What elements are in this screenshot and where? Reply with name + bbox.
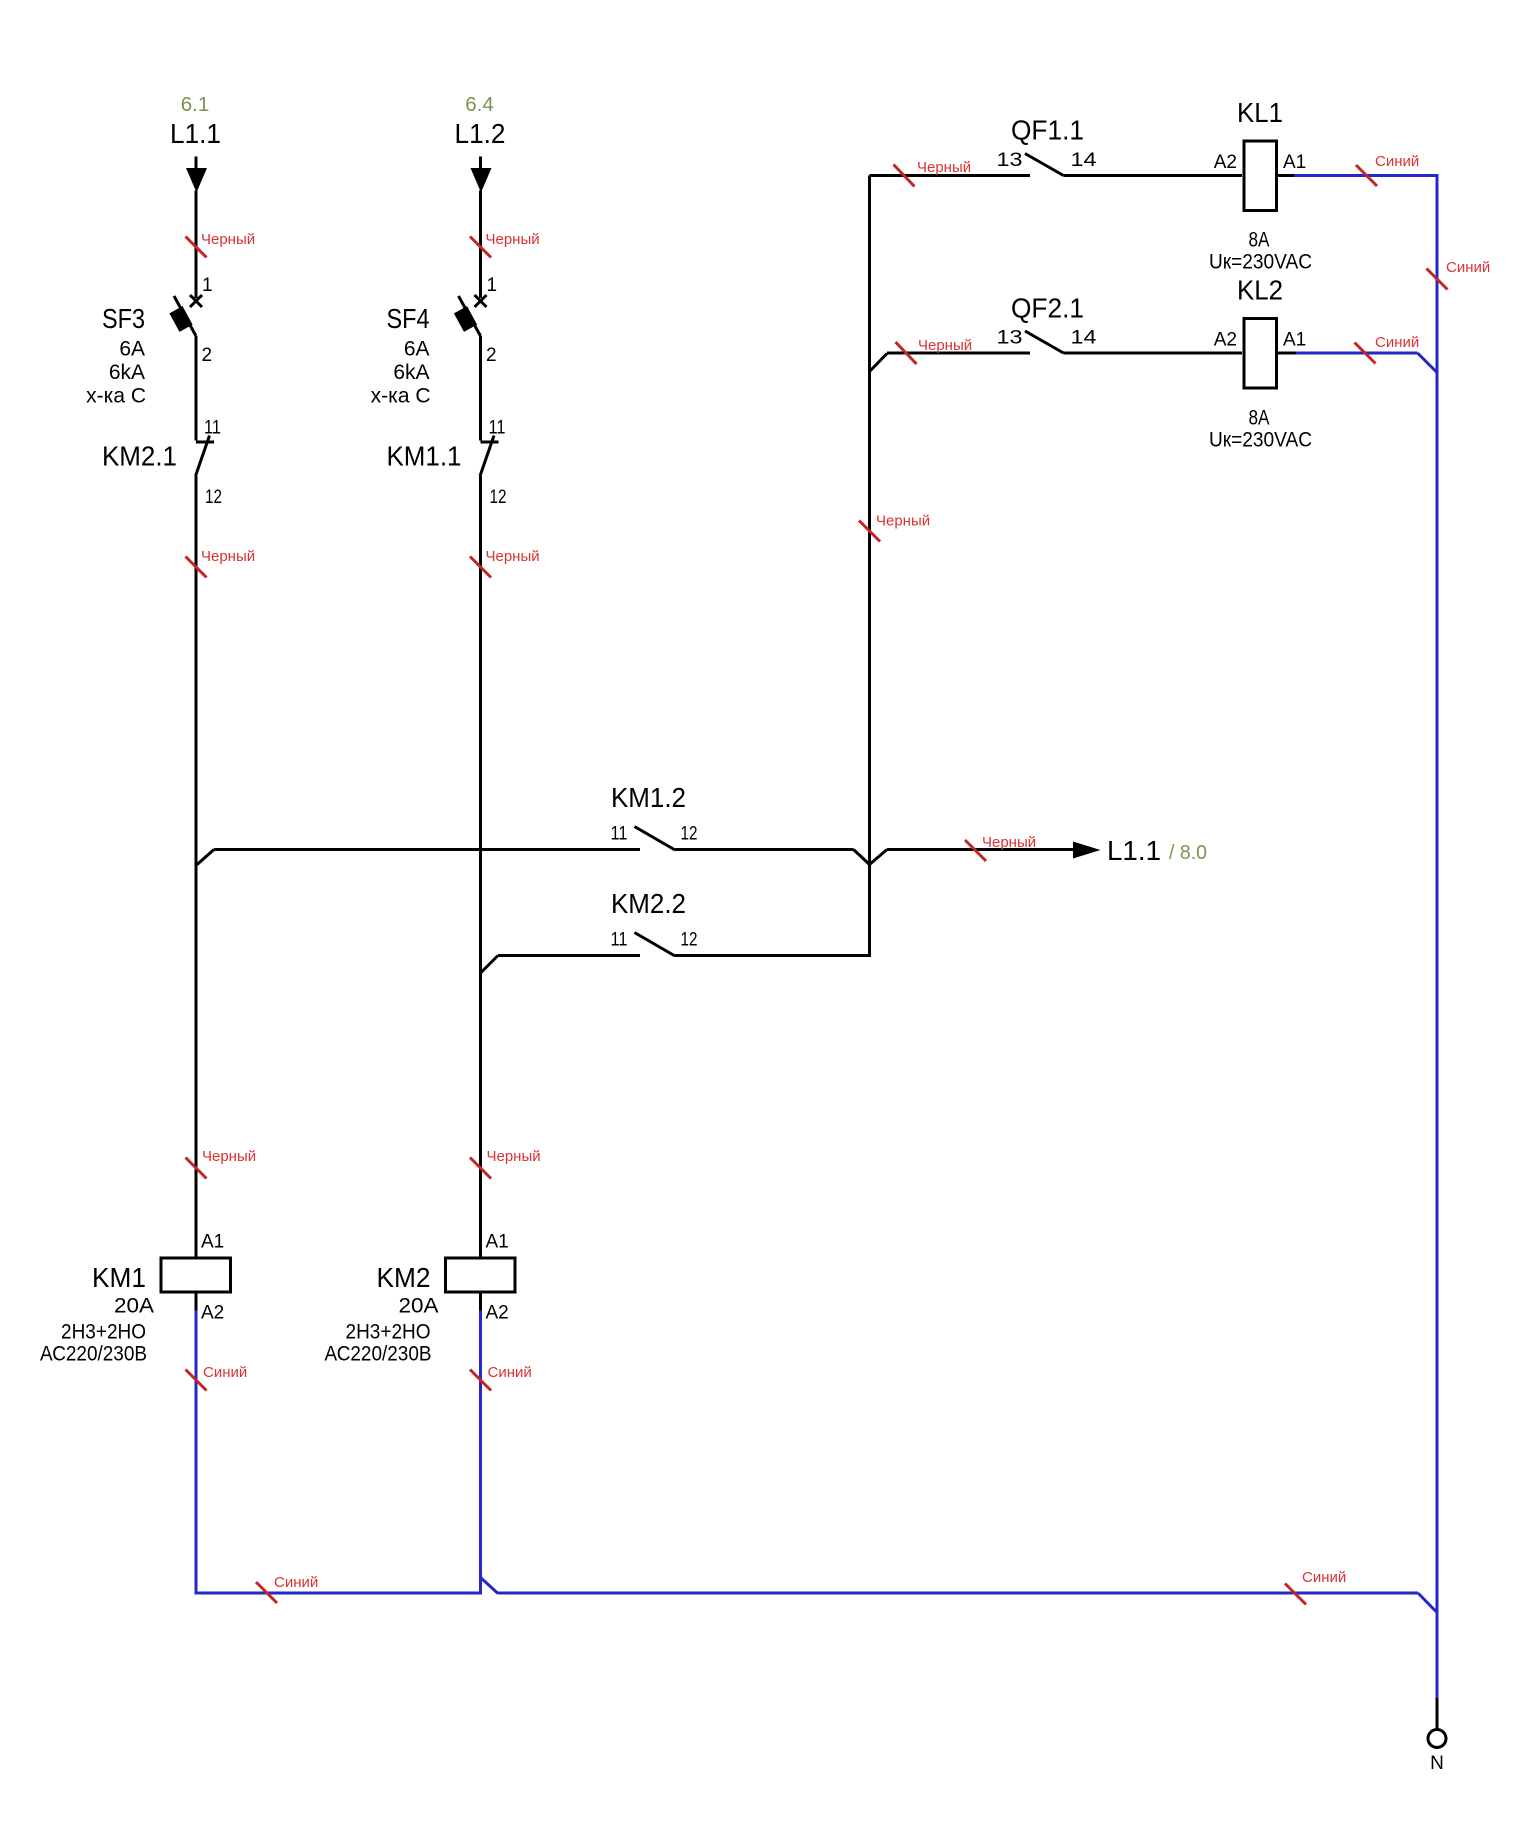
pin 1 of SF3 — [202, 275, 213, 296]
NO contact KM2.2 — [611, 888, 698, 956]
contactor coil KM2 — [325, 1258, 516, 1366]
svg-text:6A: 6A — [404, 338, 430, 361]
NO contact KM1.2 — [611, 782, 698, 850]
node L1.1 source arrow (ref 6.1) — [170, 94, 221, 193]
svg-text:11: 11 — [611, 824, 628, 845]
relay coil KL1 — [1209, 97, 1312, 274]
svg-text:Синий: Синий — [274, 1574, 318, 1591]
svg-text:L1.2: L1.2 — [455, 118, 506, 149]
svg-text:20A: 20A — [399, 1295, 439, 1318]
svg-text:12: 12 — [681, 930, 698, 951]
svg-text:2Н3+2НО: 2Н3+2НО — [346, 1321, 431, 1344]
svg-text:Черный: Черный — [487, 1148, 541, 1165]
pin A1 of KM1 — [201, 1232, 224, 1253]
wire QF2.1 to KL2 A2 — [1064, 352, 1243, 355]
wire color label Черный (QF branch vertical) — [859, 513, 930, 542]
pin A1 of KM2 — [486, 1232, 509, 1253]
svg-text:KL2: KL2 — [1237, 275, 1283, 306]
svg-text:KM2: KM2 — [377, 1262, 431, 1293]
wire QF1.1 to KL1 A2 — [1064, 174, 1243, 177]
svg-text:6kA: 6kA — [393, 361, 429, 384]
svg-text:KM1.1: KM1.1 — [387, 441, 462, 472]
svg-text:12: 12 — [490, 487, 507, 508]
svg-text:8A: 8A — [1249, 229, 1270, 252]
wire L1.1 down to SF3 pin 1 — [195, 191, 198, 299]
circuit breaker SF4 — [371, 295, 487, 408]
wire color label Черный (top of SF3 branch) — [186, 231, 256, 258]
svg-text:1: 1 — [487, 275, 498, 296]
svg-text:6.4: 6.4 — [465, 94, 494, 116]
NO contact QF2.1 — [997, 293, 1098, 354]
svg-text:2: 2 — [202, 345, 213, 366]
svg-text:20A: 20A — [114, 1295, 154, 1318]
NC contact KM2.1 — [102, 436, 214, 477]
wire color label Синий (N bus left) — [256, 1574, 318, 1603]
svg-text:Черный: Черный — [201, 231, 255, 248]
svg-text:SF3: SF3 — [102, 303, 145, 334]
wire (blue) N bus horizontal right — [498, 1592, 1418, 1595]
svg-text:A1: A1 — [201, 1232, 224, 1253]
wire KM2 coil A2 stub — [479, 1293, 482, 1311]
wire color label Синий (below KM1) — [186, 1364, 248, 1391]
svg-text:6A: 6A — [119, 338, 145, 361]
svg-text:KM1.2: KM1.2 — [611, 782, 686, 813]
svg-text:Черный: Черный — [486, 548, 540, 565]
svg-text:KM2.2: KM2.2 — [611, 888, 686, 919]
svg-text:1: 1 — [202, 275, 213, 296]
pin 1 of SF4 — [487, 275, 498, 296]
svg-text:2Н3+2НО: 2Н3+2НО — [61, 1321, 146, 1344]
wire SF3 pin 2 to KM2.1 pin 11 — [195, 336, 198, 441]
pin A2 of KL2 — [1214, 330, 1237, 351]
svg-text:A1: A1 — [1283, 330, 1306, 351]
svg-text:14: 14 — [1071, 328, 1098, 349]
svg-text:Черный: Черный — [486, 231, 540, 248]
wire color label Черный (above KM1 coil) — [186, 1148, 257, 1179]
wire color label Черный (middle of SF4 branch) — [470, 548, 540, 578]
wire KM1.2 row right segment — [675, 848, 854, 851]
wire color label Черный (middle of SF3 branch) — [186, 548, 256, 578]
svg-text:12: 12 — [205, 487, 222, 508]
wire (blue) KM2 A2 down to N bus — [479, 1311, 482, 1595]
svg-text:QF1.1: QF1.1 — [1011, 115, 1084, 146]
svg-text:АС220/230В: АС220/230В — [325, 1343, 432, 1366]
svg-text:11: 11 — [611, 930, 628, 951]
wire KM2.2 row up to junction node — [868, 865, 871, 958]
pin 2 of SF3 — [202, 345, 213, 366]
circuit breaker SF3 — [86, 295, 202, 408]
wire color label Синий (N bus right) — [1285, 1569, 1346, 1605]
svg-text:Черный: Черный — [918, 337, 972, 354]
wire color label Черный (QF1.1 row) — [894, 159, 972, 187]
junction jog into node (left) — [854, 850, 870, 865]
svg-text:A2: A2 — [1214, 152, 1237, 173]
wire color label Черный (above KM2 coil) — [470, 1148, 541, 1179]
relay coil KL2 — [1209, 275, 1312, 452]
svg-text:A2: A2 — [486, 1303, 509, 1324]
wire color label Черный (top of SF4 branch) — [470, 231, 540, 258]
wire QF branch vertical — [868, 176, 871, 865]
wire KM2.2 row right segment — [675, 954, 870, 957]
NO contact QF1.1 — [997, 115, 1098, 176]
svg-text:Синий: Синий — [1302, 1569, 1346, 1586]
svg-text:SF4: SF4 — [387, 303, 430, 334]
svg-text:11: 11 — [489, 418, 506, 439]
wire KL1 A1 stub — [1278, 174, 1295, 177]
svg-text:Синий: Синий — [1375, 334, 1419, 351]
junction jog KL2 row into N line — [1418, 353, 1438, 373]
pin A2 of KM1 — [201, 1303, 224, 1324]
svg-text:L1.1: L1.1 — [170, 118, 221, 149]
svg-text:A1: A1 — [486, 1232, 509, 1253]
svg-text:Черный: Черный — [917, 159, 971, 176]
wire QF1.1 row left segment — [870, 174, 1031, 177]
wire L1.2 down to SF4 pin 1 — [479, 191, 482, 299]
wire color label Черный (L1.1 out) — [965, 834, 1036, 861]
pin A1 of KL1 — [1283, 152, 1306, 173]
svg-text:Uк=230VAC: Uк=230VAC — [1209, 429, 1312, 452]
wire KM1.1 pin 12 down to KM2 coil A1 — [479, 476, 482, 1257]
svg-text:АС220/230В: АС220/230В — [40, 1343, 147, 1366]
wire color label Синий (N line vertical) — [1427, 259, 1491, 290]
svg-text:х-ка С: х-ка С — [371, 385, 431, 408]
svg-text:12: 12 — [681, 824, 698, 845]
pin 11 of KM2.1 — [204, 418, 221, 439]
svg-text:х-ка С: х-ка С — [86, 385, 146, 408]
svg-text:/ 8.0: / 8.0 — [1169, 842, 1207, 864]
wire color label Синий (KL1 row) — [1356, 153, 1419, 186]
pin 12 of KM2.1 — [205, 487, 222, 508]
svg-text:Синий: Синий — [488, 1364, 532, 1381]
svg-text:A1: A1 — [1283, 152, 1306, 173]
wire QF2.1 row left segment — [887, 352, 1030, 355]
svg-text:Синий: Синий — [203, 1364, 247, 1381]
svg-text:Черный: Черный — [201, 548, 255, 565]
pin 12 of KM1.1 — [490, 487, 507, 508]
pin A2 of KM2 — [486, 1303, 509, 1324]
wire junction node to L1.1 destination — [887, 848, 1074, 851]
svg-text:KL1: KL1 — [1237, 97, 1283, 128]
contactor coil KM1 — [40, 1258, 231, 1366]
svg-text:Синий: Синий — [1375, 153, 1419, 170]
svg-text:L1.1: L1.1 — [1107, 835, 1161, 866]
svg-text:13: 13 — [997, 328, 1023, 349]
junction jog out of node (right) — [870, 850, 888, 865]
wire KL2 A1 stub — [1278, 352, 1297, 355]
svg-text:13: 13 — [997, 150, 1023, 171]
svg-text:Синий: Синий — [1446, 259, 1490, 276]
NC contact KM1.1 — [387, 436, 499, 477]
svg-text:Черный: Черный — [876, 513, 930, 530]
junction jog to KM2.2 row — [481, 956, 499, 974]
pin 2 of SF4 — [486, 345, 497, 366]
svg-text:6kA: 6kA — [109, 361, 145, 384]
wire SF4 pin 2 to KM1.1 pin 11 — [479, 336, 482, 441]
svg-text:QF2.1: QF2.1 — [1011, 293, 1084, 324]
wire (blue) KL2 A1 to N line — [1296, 352, 1418, 355]
svg-text:Uк=230VAC: Uк=230VAC — [1209, 251, 1312, 274]
svg-text:KM1: KM1 — [92, 1262, 146, 1293]
wire KM2.2 row left segment — [498, 954, 640, 957]
node L1.1 destination arrow (ref 8.0) — [1073, 835, 1207, 866]
svg-text:8A: 8A — [1249, 407, 1270, 430]
wire (blue) KM1 A2 down to N bus — [195, 1311, 198, 1595]
svg-text:2: 2 — [486, 345, 497, 366]
wire color label Синий (KL2 row) — [1355, 334, 1420, 364]
junction jog QF branch to QF2.1 row — [870, 354, 888, 372]
junction jog N bus into N line — [1418, 1593, 1437, 1613]
wire (blue) N bus horizontal left — [196, 1592, 482, 1595]
wire KM1.2 row left segment — [214, 848, 640, 851]
svg-text:KM2.1: KM2.1 — [102, 441, 177, 472]
pin A2 of KL1 — [1214, 152, 1237, 173]
junction jog KM2 branch into N bus — [481, 1578, 499, 1594]
terminal N — [1428, 1698, 1446, 1774]
svg-text:N: N — [1430, 1753, 1444, 1774]
svg-text:Черный: Черный — [982, 834, 1036, 851]
wire (blue) N line vertical — [1436, 176, 1439, 1699]
svg-text:11: 11 — [204, 418, 221, 439]
svg-text:14: 14 — [1071, 150, 1098, 171]
svg-text:6.1: 6.1 — [181, 94, 210, 116]
svg-text:A2: A2 — [1214, 330, 1237, 351]
junction jog to KM1.2 row — [197, 850, 215, 866]
node L1.2 source arrow (ref 6.4) — [455, 94, 506, 193]
svg-text:Черный: Черный — [202, 1148, 256, 1165]
pin 11 of KM1.1 — [489, 418, 506, 439]
svg-text:A2: A2 — [201, 1303, 224, 1324]
wire color label Синий (below KM2) — [470, 1364, 532, 1391]
wire (blue) KL1 A1 to N line — [1294, 174, 1439, 177]
wire color label Черный (QF2.1 row) — [896, 337, 973, 364]
pin A1 of KL2 — [1283, 330, 1306, 351]
wire KM2.1 pin 12 down to KM1 coil A1 — [195, 476, 198, 1257]
wire KM1 coil A2 stub — [195, 1293, 198, 1311]
